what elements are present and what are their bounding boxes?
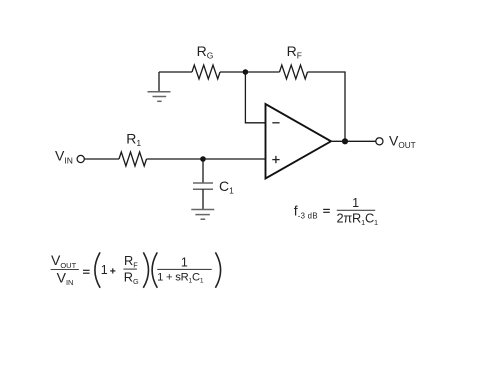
formula f-3dB = 1/(2*pi*R1*C1) — [294, 196, 378, 227]
wire RG to node A — [220, 71, 245, 73]
wire C1 to GND2 — [202, 189, 204, 209]
svg-text:1: 1 — [181, 255, 188, 269]
svg-text:1 + sR1C1: 1 + sR1C1 — [157, 271, 204, 284]
terminal VOUT (open circle) — [376, 138, 383, 145]
wire output node to VOUT terminal — [331, 140, 376, 142]
node A (junction RG / RF / feedback) — [243, 69, 249, 75]
formula VOUT/VIN = (1 + RF/RG)(1/(1 + sR1C1)) — [51, 252, 221, 288]
op-amp U1 non-inverting input marker (+) — [272, 156, 279, 163]
capacitor C1 — [193, 183, 213, 189]
op-amp U1 inverting input marker (-) — [272, 122, 279, 124]
wire node A down to op-amp inverting input — [245, 72, 265, 123]
svg-text:1: 1 — [352, 196, 359, 210]
wire node A to RF — [245, 71, 279, 73]
svg-text:1: 1 — [101, 263, 108, 277]
node B (junction R1 / C1 / non-inverting input) — [200, 156, 206, 162]
wire node B down to C1 — [202, 159, 204, 183]
ground GND1 (left of RG) — [148, 72, 171, 101]
op-amp U1 — [266, 104, 332, 179]
wire node B to op-amp + input — [203, 158, 266, 160]
wire R1 to node B — [147, 158, 204, 160]
resistor R1 — [119, 152, 147, 166]
resistor RG — [192, 65, 220, 79]
terminal VIN (open circle) — [77, 155, 84, 162]
node OUT (output junction) — [342, 138, 348, 144]
wire GND1 to RG — [159, 71, 192, 73]
wire RF to output node (feedback right leg) — [308, 72, 346, 141]
resistor RF — [280, 65, 308, 79]
svg-text:2πR1C1: 2πR1C1 — [337, 211, 379, 228]
ground GND2 (below C1) — [191, 210, 214, 220]
wire VIN terminal to R1 — [84, 158, 119, 160]
